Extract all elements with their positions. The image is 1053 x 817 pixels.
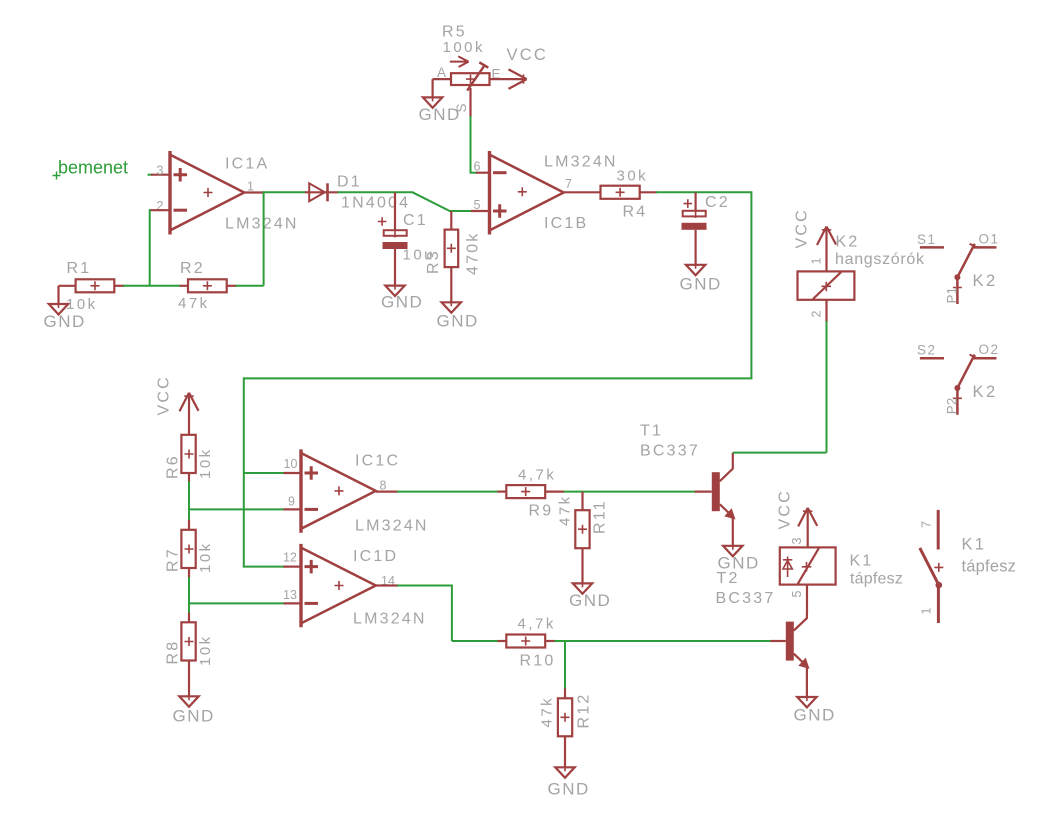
pin 6 IC1B xyxy=(474,159,490,173)
svg-text:47k: 47k xyxy=(557,494,574,526)
svg-text:5: 5 xyxy=(474,198,481,212)
wire feedback net from C2 node down and across to comparators xyxy=(244,191,753,566)
svg-text:P2: P2 xyxy=(945,398,960,415)
label T1 BC337 xyxy=(640,423,700,460)
label IC1C LM324N xyxy=(355,453,429,535)
label C1 10u xyxy=(403,212,436,264)
svg-text:O1: O1 xyxy=(979,231,1000,246)
relay coil K1 with diode xyxy=(780,547,836,584)
label T2 BC337 xyxy=(716,570,776,607)
label R6 10k (rotated) xyxy=(165,447,215,479)
svg-text:GND: GND xyxy=(44,312,86,331)
svg-text:R2: R2 xyxy=(180,260,205,277)
svg-text:GND: GND xyxy=(381,293,423,312)
svg-text:R5: R5 xyxy=(442,24,467,41)
diode D1 1N4004 xyxy=(305,183,339,201)
supply VCC arrow above K1 coil xyxy=(798,508,817,548)
label VCC at K1 (rotated) xyxy=(777,489,794,529)
svg-text:K2: K2 xyxy=(973,272,998,290)
label LM324N IC1B xyxy=(544,154,618,233)
transistor T2 BC337 xyxy=(770,614,809,698)
svg-text:LM324N: LM324N xyxy=(355,518,429,535)
svg-text:GND: GND xyxy=(437,312,479,331)
svg-text:100k: 100k xyxy=(443,39,486,56)
svg-text:47k: 47k xyxy=(539,696,556,728)
svg-text:K2: K2 xyxy=(836,234,860,251)
op-amp U IC1A xyxy=(170,151,244,235)
svg-text:R12: R12 xyxy=(576,693,593,729)
svg-text:tápfesz: tápfesz xyxy=(850,571,903,588)
svg-text:R7: R7 xyxy=(165,547,182,572)
resistor R3 470k (vertical) xyxy=(445,211,459,302)
label R3 470k (rotated) xyxy=(425,232,482,276)
label R10 4,7k xyxy=(518,616,556,670)
pin 2 K2 coil (rotated) xyxy=(810,311,824,318)
svg-text:BC337: BC337 xyxy=(640,443,700,460)
svg-text:R10: R10 xyxy=(520,653,556,670)
pin 5 K1 coil (rotated) xyxy=(790,591,804,598)
svg-text:7: 7 xyxy=(565,177,572,191)
pin 14 IC1D output xyxy=(376,574,398,588)
svg-text:T1: T1 xyxy=(640,423,663,440)
svg-text:tápfesz: tápfesz xyxy=(962,558,1017,576)
svg-text:4,7k: 4,7k xyxy=(518,467,556,484)
label P2 (rotated) xyxy=(945,398,960,415)
svg-text:IC1A: IC1A xyxy=(225,156,269,173)
pin 3 K1 coil (rotated) xyxy=(790,538,804,545)
label R9 4,7k xyxy=(518,467,556,520)
svg-text:9: 9 xyxy=(288,495,295,509)
capacitor C1 (polarized) xyxy=(378,192,408,285)
supply VCC arrow at R5 pin E xyxy=(490,69,527,89)
ground symbol at R5 pin A xyxy=(419,79,461,124)
svg-text:C2: C2 xyxy=(705,194,730,211)
svg-text:VCC: VCC xyxy=(777,489,794,529)
svg-text:3: 3 xyxy=(790,538,804,545)
svg-text:IC1D: IC1D xyxy=(353,548,398,565)
svg-text:GND: GND xyxy=(569,591,611,610)
svg-text:S2: S2 xyxy=(917,343,937,358)
op-amp U IC1C xyxy=(301,449,376,532)
svg-text:13: 13 xyxy=(283,588,297,602)
svg-text:6: 6 xyxy=(474,159,481,173)
label IC1A LM324N xyxy=(225,156,299,233)
resistor R6 10k (vertical) xyxy=(181,435,195,473)
svg-text:GND: GND xyxy=(419,105,461,124)
label R11 47k (rotated) xyxy=(557,494,609,534)
svg-text:1N4004: 1N4004 xyxy=(341,195,410,212)
label C2 xyxy=(705,194,730,211)
wire node to IC1D pin 13 xyxy=(188,602,285,604)
switch contact S2/O2/P2 of K2 xyxy=(920,355,997,415)
pin 7 IC1B output xyxy=(564,177,601,193)
svg-text:GND: GND xyxy=(794,706,836,725)
svg-text:10k: 10k xyxy=(197,634,214,666)
svg-text:VCC: VCC xyxy=(156,375,173,415)
wire R5 wiper S to IC1B pin 6 xyxy=(470,88,478,173)
svg-text:K2: K2 xyxy=(973,383,998,401)
resistor R1 xyxy=(59,279,125,292)
label K2 hangszórók xyxy=(835,234,925,269)
op-amp U IC1D xyxy=(301,544,376,627)
pin E label xyxy=(492,67,501,82)
supply VCC arrow above K2 coil xyxy=(817,227,836,272)
pin S label (rotated) xyxy=(454,103,469,112)
svg-text:VCC: VCC xyxy=(794,208,811,248)
svg-text:LM324N: LM324N xyxy=(225,216,299,233)
label K2 at contact 1 xyxy=(973,272,998,290)
label VCC at R5 xyxy=(507,46,548,64)
svg-text:K1: K1 xyxy=(962,536,987,554)
svg-text:R8: R8 xyxy=(165,640,182,665)
svg-text:1: 1 xyxy=(810,258,824,265)
wire R1-R2 node xyxy=(123,285,181,287)
wire IC1A out to D1 and down to R2 xyxy=(263,191,306,285)
svg-text:O2: O2 xyxy=(979,342,1000,357)
svg-text:bemenet: bemenet xyxy=(58,158,128,178)
pin 13 IC1D xyxy=(283,588,301,603)
svg-text:D1: D1 xyxy=(337,174,362,191)
pin 10 IC1C xyxy=(284,457,302,473)
svg-text:VCC: VCC xyxy=(507,46,548,64)
ground symbol at T2 emitter xyxy=(794,693,836,725)
potentiometer R5 100k xyxy=(433,56,490,90)
svg-text:K1: K1 xyxy=(850,553,874,570)
svg-text:10: 10 xyxy=(284,457,298,471)
wire K1 coil pin 5 to T2 collector xyxy=(806,585,808,614)
svg-text:1: 1 xyxy=(920,608,934,615)
svg-text:10k: 10k xyxy=(197,447,214,479)
resistor R9 4,7k xyxy=(498,485,565,498)
svg-text:12: 12 xyxy=(283,551,297,565)
pin 9 IC1C xyxy=(284,495,302,510)
capacitor C2 (polarized) xyxy=(682,192,707,264)
op-amp U IC1B xyxy=(490,151,564,235)
resistor R4 30k xyxy=(601,186,658,199)
svg-text:hangszórók: hangszórók xyxy=(835,251,925,268)
label R5 100k xyxy=(442,24,485,57)
ground symbol at C2 xyxy=(680,261,722,294)
svg-text:3: 3 xyxy=(157,163,164,177)
pin A label xyxy=(437,65,446,80)
pin 1 K2 coil (rotated) xyxy=(810,258,824,265)
wire IC1D out down to R10 xyxy=(397,585,499,642)
svg-text:GND: GND xyxy=(680,275,722,294)
svg-text:10k: 10k xyxy=(197,541,214,573)
pin 2 IC1A with wire to R1/R2 node xyxy=(150,199,170,286)
label O1 xyxy=(979,231,1000,246)
label K1 tápfesz at switch xyxy=(962,536,1017,576)
pin 1 IC1A output xyxy=(244,179,263,193)
pin 7 K1 switch (rotated) xyxy=(920,521,934,528)
label VCC at K2 (rotated) xyxy=(794,208,811,248)
ground symbol at R11 xyxy=(569,579,611,610)
svg-text:P1: P1 xyxy=(945,287,960,304)
label VCC at R6 (rotated) xyxy=(156,375,173,415)
svg-text:IC1C: IC1C xyxy=(355,453,400,470)
svg-text:IC1B: IC1B xyxy=(544,215,588,232)
pin 1 K1 switch (rotated) xyxy=(920,608,934,615)
ground symbol at T1 emitter xyxy=(718,542,760,573)
wire R2 to feedback node xyxy=(236,285,264,287)
wire R6-R7 node xyxy=(188,473,190,530)
wire node to IC1C pin 9 xyxy=(188,508,285,510)
resistor R11 47k (vertical) xyxy=(575,510,589,583)
svg-text:A: A xyxy=(437,65,446,80)
pin 5 IC1B xyxy=(471,198,490,212)
wire net bemenet (IC1A pin 3 stub) xyxy=(148,174,171,176)
pin 12 IC1D xyxy=(283,551,301,567)
svg-text:R4: R4 xyxy=(623,204,648,221)
svg-text:C1: C1 xyxy=(403,212,428,229)
svg-text:GND: GND xyxy=(548,780,590,799)
svg-text:S1: S1 xyxy=(917,232,937,247)
svg-text:R6: R6 xyxy=(165,454,182,479)
resistor R7 10k (vertical) xyxy=(181,530,195,568)
label S1 xyxy=(917,232,937,247)
ground symbol at R1 xyxy=(44,286,86,331)
svg-text:R1: R1 xyxy=(67,260,92,277)
net label bemenet xyxy=(53,158,129,180)
svg-text:R9: R9 xyxy=(529,503,554,520)
wire branch to IC1C pin 10 xyxy=(244,472,285,474)
svg-text:8: 8 xyxy=(380,479,387,493)
label S2 xyxy=(917,343,937,358)
svg-text:LM324N: LM324N xyxy=(544,154,618,171)
svg-text:BC337: BC337 xyxy=(716,590,776,607)
svg-text:GND: GND xyxy=(173,707,215,726)
wire K2 coil pin 2 down to T1 collector xyxy=(825,300,827,453)
resistor R2 xyxy=(180,279,237,292)
wire R7-R8 node xyxy=(188,568,190,622)
svg-text:7: 7 xyxy=(920,521,934,528)
pin 8 IC1C output xyxy=(376,479,398,493)
svg-text:5: 5 xyxy=(790,591,804,598)
svg-text:T2: T2 xyxy=(717,570,740,587)
svg-text:47k: 47k xyxy=(178,295,210,312)
pin 3 IC1A xyxy=(157,163,164,177)
switch contact S1/O1/P1 of K2 xyxy=(920,244,997,304)
transistor T1 BC337 xyxy=(695,453,736,546)
svg-text:10k: 10k xyxy=(66,296,98,313)
wire R4 to C2 node to feedback xyxy=(656,191,751,193)
label IC1D LM324N xyxy=(353,548,427,628)
relay coil K2 xyxy=(798,271,855,299)
svg-text:R3: R3 xyxy=(425,249,442,274)
label R8 10k (rotated) xyxy=(165,634,215,666)
label R2 47k xyxy=(178,260,210,312)
svg-text:LM324N: LM324N xyxy=(353,611,427,628)
ground symbol at R12 xyxy=(548,763,590,798)
svg-text:30k: 30k xyxy=(617,168,649,185)
wire branch to IC1D pin 12 xyxy=(243,566,285,568)
label R12 47k (rotated) xyxy=(539,693,593,729)
resistor R12 47k (vertical) xyxy=(558,698,572,767)
supply VCC arrow above R6 xyxy=(180,393,199,435)
wire R10 to T2 base with R12 node xyxy=(555,641,772,698)
svg-text:R11: R11 xyxy=(592,499,609,534)
ground symbol at R8 xyxy=(173,661,215,726)
wire R9 to T1 base with R11 node xyxy=(564,492,696,511)
resistor R10 4,7k xyxy=(498,635,556,648)
resistor R8 10k (vertical) xyxy=(181,622,195,660)
ground symbol at R3 xyxy=(437,298,479,330)
label K2 at contact 2 xyxy=(973,383,998,401)
wire D1 to C1 node and IC1B pin5 xyxy=(338,192,473,211)
label D1 1N4004 xyxy=(337,174,410,212)
label P1 (rotated) xyxy=(945,287,960,304)
svg-text:2: 2 xyxy=(810,311,824,318)
label K1 tápfesz at coil xyxy=(850,553,904,588)
wire IC1C out to R9 xyxy=(397,491,499,493)
ground symbol at C1 xyxy=(381,282,423,312)
switch contact K1 (7/1) xyxy=(920,510,944,623)
label O2 xyxy=(979,342,1000,357)
wire T1 collector to K2 xyxy=(733,452,827,454)
svg-text:470k: 470k xyxy=(465,232,482,276)
label R4 30k xyxy=(617,168,649,221)
svg-text:4,7k: 4,7k xyxy=(518,616,556,633)
svg-text:1: 1 xyxy=(247,179,254,193)
label R1 10k xyxy=(66,260,98,313)
label R7 10k (rotated) xyxy=(165,541,215,573)
